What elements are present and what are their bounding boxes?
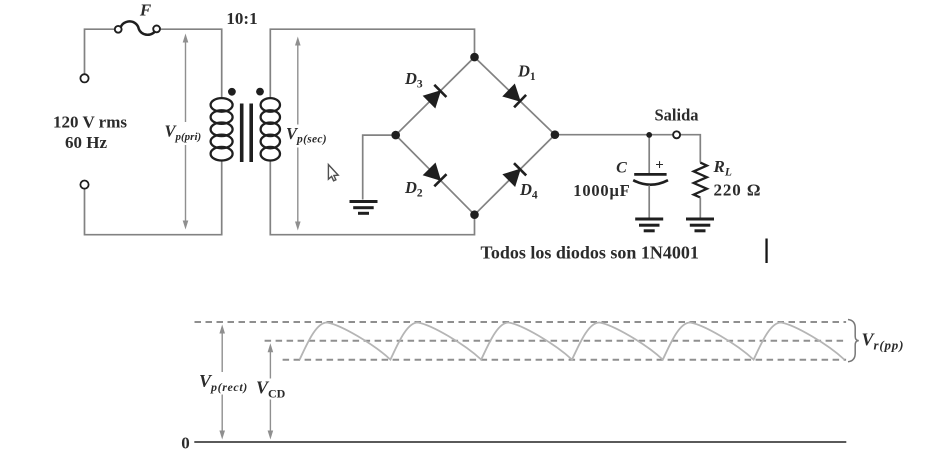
svg-text:0: 0 — [181, 434, 190, 453]
svg-text:Todos los diodos son 1N4001: Todos los diodos son 1N4001 — [481, 243, 699, 263]
svg-text:F: F — [139, 1, 152, 20]
svg-text:120 V rms: 120 V rms — [53, 113, 127, 132]
svg-text:60 Hz: 60 Hz — [65, 133, 107, 152]
svg-text:+: + — [655, 158, 664, 174]
svg-text:10:1: 10:1 — [226, 9, 257, 28]
svg-text:1000μF: 1000μF — [573, 181, 630, 200]
svg-text:C: C — [616, 160, 627, 177]
svg-text:220 Ω: 220 Ω — [714, 181, 762, 200]
svg-text:Salida: Salida — [654, 106, 698, 125]
